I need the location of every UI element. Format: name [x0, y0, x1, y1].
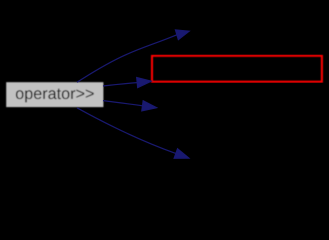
arrowhead [142, 101, 157, 111]
node current-function (red box, empty) [152, 56, 322, 82]
edge middle-low [103, 101, 157, 111]
edge top (curved up-right) [77, 30, 189, 83]
edge bottom (curved down-right) [77, 108, 189, 159]
arrowhead [137, 77, 152, 87]
edge to red box [103, 77, 152, 87]
arrowhead [174, 149, 189, 159]
label text "operator>>" [16, 89, 94, 103]
node operator>> (grey box) [6, 82, 103, 107]
wire [77, 108, 176, 154]
call graph diagram [0, 0, 329, 189]
wire [77, 35, 177, 83]
wire [103, 101, 142, 106]
arrowhead [175, 30, 189, 40]
wire [103, 83, 137, 86]
